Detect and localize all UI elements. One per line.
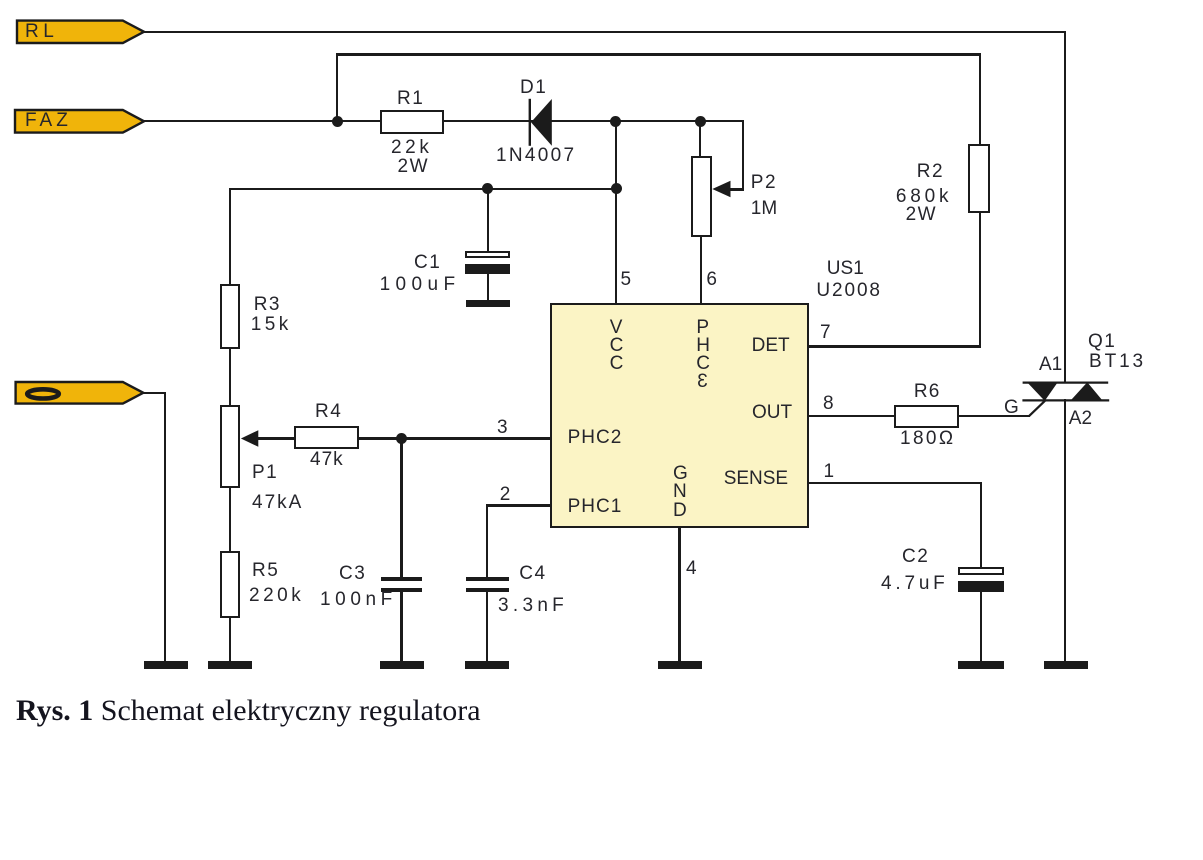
pin label GND <box>673 464 686 483</box>
potentiometer P1 <box>220 405 240 488</box>
terminal label A2 <box>1069 409 1092 428</box>
wire P2 wiper vertical <box>742 120 744 190</box>
wire P1 to R5 <box>229 488 231 552</box>
pin label DET <box>752 336 790 355</box>
wire R5 to ground <box>229 618 231 662</box>
wire P2 wiper horizontal <box>728 188 744 190</box>
wire RL vertical to triac A1 <box>1064 31 1066 383</box>
IC US1 U2008 <box>550 303 809 529</box>
resistor R3 <box>220 284 240 349</box>
ground under C4 <box>465 661 509 668</box>
triac Q1 <box>1022 382 1109 416</box>
pin number 5 <box>621 270 632 289</box>
ground under triac <box>1044 661 1088 668</box>
net label O symbol <box>27 389 59 398</box>
wire C1 top lead <box>487 188 489 252</box>
wire R4 to pin 3 <box>359 437 551 439</box>
wire R3 to P1 <box>229 349 231 405</box>
wire pin 2 <box>486 504 550 506</box>
node after D1 <box>610 116 621 127</box>
wire R6 to gate <box>959 415 1030 417</box>
potentiometer P2 wiper arrow <box>712 181 730 198</box>
pin label PHC3 <box>696 318 709 337</box>
wire top horizontal to R2 <box>336 53 982 55</box>
wire FAZ to R1 <box>144 120 380 122</box>
node FAZ junction <box>332 116 343 127</box>
pin number 1 <box>824 462 835 481</box>
resistor R2 <box>968 144 990 213</box>
wire C3 top lead <box>400 439 402 578</box>
pin label VCC <box>610 318 623 337</box>
node pin5 mid <box>611 183 622 194</box>
pin label OUT <box>752 403 792 422</box>
wire pin 4 to ground <box>678 528 680 662</box>
wire C3 bottom lead <box>400 592 402 662</box>
diode D1 <box>529 99 552 146</box>
wire C1 bottom lead <box>487 274 489 300</box>
wire O tag vertical to ground <box>164 392 166 662</box>
node C3 tap <box>396 433 407 444</box>
wire R2 top <box>979 53 981 143</box>
resistor R5 <box>220 551 240 618</box>
ground under R5 <box>208 661 252 668</box>
wire triac A2 to ground <box>1064 399 1066 661</box>
diode D1 designator <box>520 78 547 97</box>
diode D1 value <box>496 146 576 165</box>
net label FAZ text <box>25 111 72 130</box>
capacitor C2 plates <box>958 567 1004 575</box>
pin number 2 <box>500 485 511 504</box>
wire P2 top <box>699 120 701 156</box>
capacitor C3 plates <box>381 577 422 581</box>
ground under C3 <box>380 661 424 668</box>
wire D1 to P2 corner <box>530 120 744 122</box>
wire pin 8 to R6 <box>809 415 894 417</box>
ground under C1 <box>466 300 510 307</box>
pin label PHC1 <box>568 497 623 516</box>
wire FAZ junction up <box>336 53 338 120</box>
wire C2 bottom lead <box>980 592 982 662</box>
pin label SENSE <box>724 469 788 488</box>
wire pin 5 vertical <box>615 120 617 303</box>
wire pin 7 <box>809 345 981 347</box>
triac Q1 labels <box>1088 332 1116 351</box>
wire O tag horizontal <box>143 392 166 394</box>
ground under pin 4 <box>658 661 702 668</box>
resistor R6 <box>894 405 959 428</box>
wire R1 to D1 <box>444 120 530 122</box>
capacitor C4 plates <box>466 577 509 581</box>
net label FAZ tag <box>15 110 144 133</box>
wire left vertical to R3 <box>229 188 231 285</box>
pin number 6 <box>706 270 717 289</box>
potentiometer P2 <box>691 156 713 237</box>
capacitor C1 plates <box>465 251 510 258</box>
terminal label G <box>1004 398 1019 417</box>
pin number 7 <box>820 323 831 342</box>
ground under O wire <box>144 661 188 668</box>
net label O tag <box>16 382 144 404</box>
net label RL text <box>25 22 58 41</box>
pin label PHC2 <box>568 428 623 447</box>
resistor R1 <box>380 110 444 134</box>
wire P1 wiper to R4 <box>256 437 294 439</box>
wire RL horizontal <box>144 31 1066 33</box>
terminal label A1 <box>1039 355 1062 374</box>
wire pin 1 sense <box>809 482 981 484</box>
node P2 top <box>695 116 706 127</box>
wire C2 top lead <box>980 482 982 567</box>
pin number 8 <box>823 394 834 413</box>
wire C4 bottom lead <box>486 592 488 662</box>
resistor R4 <box>294 426 359 449</box>
node C1 tap <box>482 183 493 194</box>
wire P2 bottom to pin 6 <box>700 235 702 303</box>
ground under C2 <box>958 661 1004 668</box>
net label RL tag <box>17 21 144 43</box>
wire C4 top lead <box>486 504 488 577</box>
potentiometer P1 wiper arrow <box>241 430 258 447</box>
wire R2 bottom to pin7 <box>979 213 981 348</box>
caption <box>16 696 481 726</box>
wire mid horizontal <box>229 188 617 190</box>
pin number 4 <box>686 559 697 578</box>
pin number 3 <box>497 418 508 437</box>
